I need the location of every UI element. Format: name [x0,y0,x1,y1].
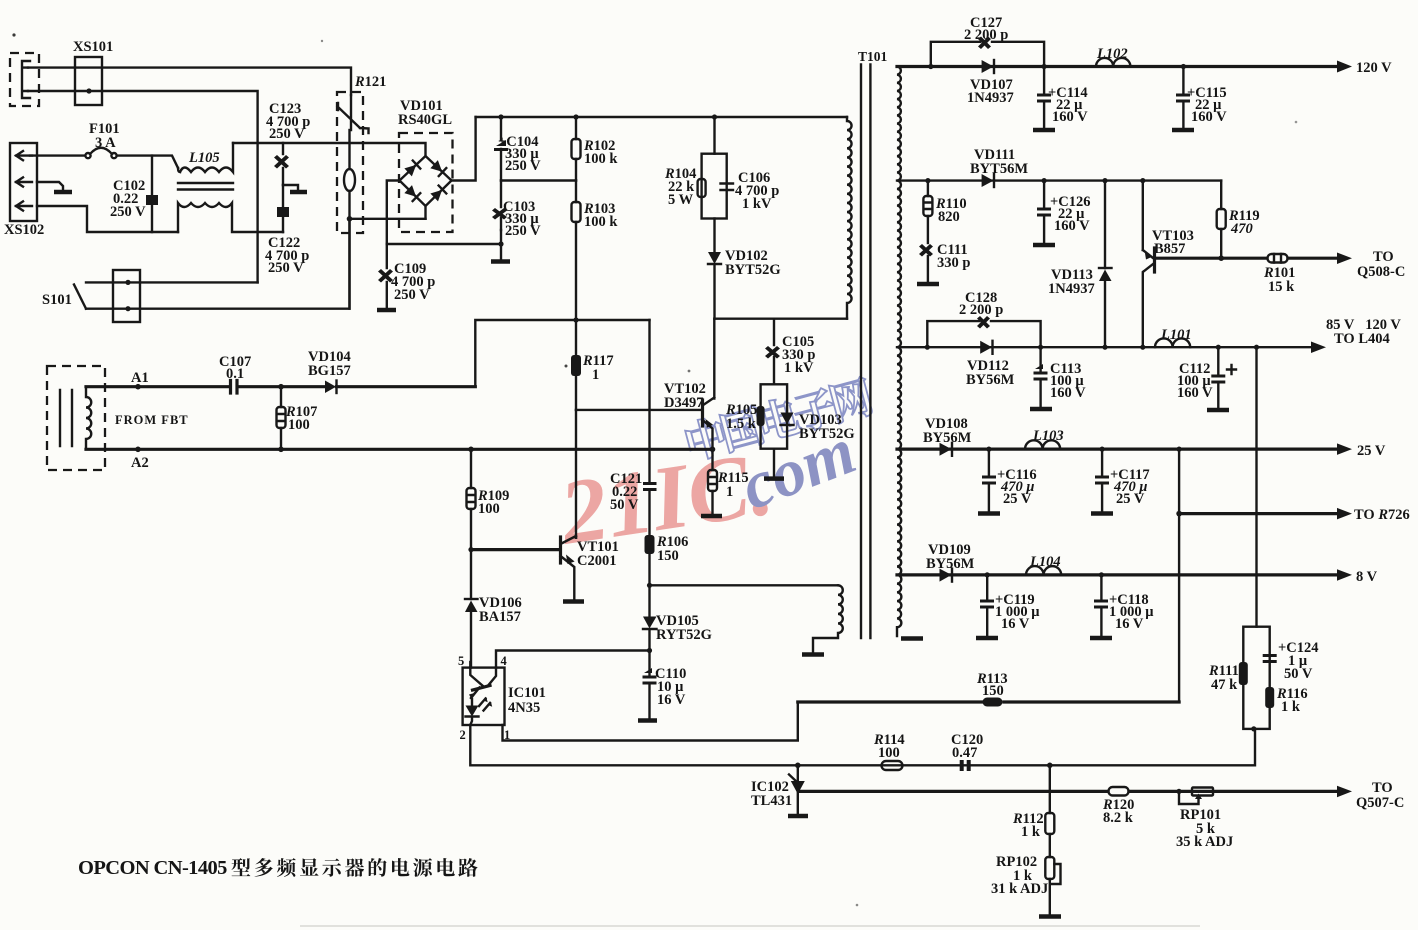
svg-text:100: 100 [478,501,500,517]
connector XS102 box [10,143,37,221]
svg-text:1: 1 [726,484,733,500]
svg-text:25 V: 25 V [1357,443,1386,459]
capacitor C112 [1216,345,1221,350]
svg-text:820: 820 [938,209,960,225]
small speck [565,365,568,368]
watermark chinese characters [683,375,874,463]
WATERMARK [552,375,875,564]
diode VD106 [470,550,472,599]
svg-text:C2001: C2001 [577,553,616,569]
svg-text:RS40GL: RS40GL [398,112,452,128]
svg-text:250 V: 250 V [110,204,146,220]
capacitor C102 [151,156,153,232]
svg-text:160 V: 160 V [1050,385,1086,401]
ground bar (C103) [491,259,510,264]
ground bar (C111) [917,282,939,287]
wire: degauss return bus [350,218,426,220]
wire: pin4 riser [496,651,650,668]
ground bar (C119) [976,636,998,641]
svg-text:150: 150 [657,548,679,564]
node R103 bottom [573,317,578,322]
svg-text:2 200 p: 2 200 p [959,302,1003,318]
diode VD113 [1102,178,1107,183]
transformer T101 core [861,65,870,639]
wire: bridge minus lead down to C109 [387,181,400,269]
SECTION: AC INPUT [4,39,426,322]
ground bar (VT101) [563,599,584,604]
potentiometer RP102 [1045,857,1054,879]
inductor L101 [1155,338,1190,347]
svg-text:TO: TO [1372,780,1393,796]
ground bar (C118) [1090,636,1112,641]
svg-text:50 V: 50 V [610,497,639,513]
svg-text:0.1: 0.1 [226,366,244,382]
wire: +310V top rail [476,116,847,118]
wire: bridge + output to top rail [452,117,476,181]
resistor R113 body [983,698,1003,707]
wire: VD104 node up-over to C121 branch [475,320,649,387]
FBT core lines [60,390,72,446]
resistor R119 [1220,181,1222,209]
ground bar (T101 secondary common) [901,636,923,641]
diode VD112 [980,341,992,354]
wire: AC rail to bridge [233,143,426,156]
SECTION: SECONDARY OUTPUTS [798,15,1410,732]
inductor L102 [1096,58,1130,67]
wire: A1 line [86,385,475,388]
faint page artifact line [300,925,1200,927]
FBT coil dashed box [47,366,105,470]
ground bar (C117) [1091,511,1113,516]
svg-text:1.5 k: 1.5 k [726,416,757,432]
node VT102 emitter [710,447,716,453]
capacitor C114 [1043,67,1045,130]
wire: 85V rail [897,346,1311,348]
svg-text:120 V: 120 V [1356,60,1392,76]
SECTION: SWITCHER MIDDLE [86,317,855,667]
svg-text:L105: L105 [188,150,220,166]
transformer T101 primary winding [847,117,852,319]
svg-text:TL431: TL431 [751,793,792,809]
SECTION: TRANSFORMER [802,49,923,655]
resistor R101 body [1268,254,1288,263]
capacitor C123 [282,143,284,185]
ground bar (C114) [1033,128,1055,133]
wire: primary bottom to transformer [715,318,848,320]
ground bar (C126) [1033,243,1055,248]
resistor R110 [925,178,930,183]
wire: 120V rail [897,65,1337,68]
IC101 LED [466,706,479,717]
capacitor C119 [985,572,990,577]
transistor VT101 [559,537,562,563]
shunt regulator IC102 TL431 [797,765,799,815]
svg-text:BG157: BG157 [308,363,351,379]
svg-text:T101: T101 [858,49,888,64]
svg-text:BY56M: BY56M [926,556,975,572]
S101 contact nodes [125,280,130,285]
svg-text:TO R726: TO R726 [1354,507,1410,523]
svg-text:1N4937: 1N4937 [967,90,1014,106]
capacitor C122 [282,185,284,232]
svg-text:160 V: 160 V [1052,109,1088,125]
sense divider R111/C124/R116 box [1243,627,1269,729]
ground bar (C109) [377,308,396,313]
capacitor C115 [1181,64,1186,69]
thermistor R121 lower element (oval) [348,130,350,169]
svg-text:100: 100 [288,417,310,433]
resistor R104 body [698,179,706,197]
wire: line through fuse to L105 [30,156,178,168]
svg-text:15 k: 15 k [1268,279,1295,295]
svg-text:BYT52G: BYT52G [799,426,855,442]
node VT101 base [468,547,473,552]
svg-text:OPCON CN-1405: OPCON CN-1405 [78,857,227,879]
node VD113 bottom [1102,345,1107,350]
IC101 phototransistor [470,668,483,686]
SECTION: REGULATION BOTTOM [751,732,1404,917]
svg-text:50 V: 50 V [1284,666,1313,682]
diode VD103 [781,413,794,425]
resistor R112 [1049,765,1051,813]
svg-text:250 V: 250 V [394,287,430,303]
svg-text:S101: S101 [42,292,72,308]
inductor L103 [1025,440,1060,449]
node VT103 collector [1140,345,1145,350]
capacitor C116 [986,447,991,452]
wire: TO R726 line [1176,511,1182,517]
capacitor C121 [648,320,650,535]
wire: 25V sense riser down [1177,447,1182,452]
svg-text:100 k: 100 k [584,214,618,230]
svg-text:0.47: 0.47 [952,745,977,761]
svg-text:5 W: 5 W [668,192,694,208]
bridge diode 1 [404,161,420,177]
diode VD107 [982,60,994,73]
transformer T101 aux winding [813,585,843,653]
svg-text:BYT52G: BYT52G [725,262,781,278]
svg-text:B857: B857 [1154,241,1185,257]
ground tap between C123/C122 [283,185,298,191]
switch S101 lever [74,285,86,309]
svg-text:A2: A2 [131,455,149,471]
svg-text:BY56M: BY56M [966,372,1015,388]
clamp R105/VD103 box [761,384,788,448]
capacitor C110 [643,668,657,685]
XS102 prong arrows [16,151,32,211]
svg-text:4: 4 [501,654,508,668]
svg-text:100 k: 100 k [584,151,618,167]
ground bar (IC102) [788,814,808,819]
svg-text:16 V: 16 V [657,692,686,708]
resistor R117 [575,320,577,355]
inductor L104 [1026,566,1061,575]
svg-text:8 V: 8 V [1356,569,1378,585]
capacitor C103 [500,181,502,231]
svg-text:4N35: 4N35 [508,700,540,716]
diode VD111 [982,174,994,187]
svg-text:150: 150 [982,683,1004,699]
svg-text:160 V: 160 V [1191,109,1227,125]
rectifier VD101 bridge diamond [400,156,452,206]
svg-text:BA157: BA157 [479,609,521,625]
wire: primary return rail [86,448,713,451]
svg-text:330 p: 330 p [937,255,970,271]
svg-text:160 V: 160 V [1054,218,1090,234]
capacitor C126 [1042,178,1047,183]
svg-text:1 kV: 1 kV [742,196,772,212]
svg-text:8.2 k: 8.2 k [1103,810,1134,826]
svg-text:D3497: D3497 [664,395,703,411]
wire: S101 top contact to XS101 line2 [86,281,258,283]
svg-text:1 k: 1 k [1021,824,1041,840]
wire: C103 bottom return [500,230,502,260]
ground bar (RP102) [1039,914,1061,919]
svg-text:BY56M: BY56M [923,430,972,446]
svg-text:BYT56M: BYT56M [970,161,1028,177]
wire: AC line top from plug to R121 [28,68,351,95]
svg-text:IC101: IC101 [508,685,546,701]
bridge diode 2 [430,160,446,176]
svg-text:31 k ADJ: 31 k ADJ [991,881,1048,897]
resistor R116 body [1265,687,1274,708]
TITLE [78,857,1200,926]
resistor R115 [711,449,713,470]
ground bar (C116) [978,511,1000,516]
wire: TO Q507-C line [799,790,1337,793]
capacitor C128 loop [927,321,1040,347]
wire: feedback line with R113 [798,700,1179,703]
svg-text:250 V: 250 V [505,158,541,174]
ground bar (C115) [1172,128,1194,133]
diode VD104 [325,381,336,394]
degauss plug prongs [22,61,30,98]
wire: bridge AC2 lead down [424,206,426,219]
svg-text:16 V: 16 V [1001,616,1030,632]
svg-text:XS102: XS102 [4,222,44,238]
ground bar (XS102) [54,190,72,195]
wire: pin 2 drop and run to TL431 [470,725,1255,765]
svg-text:1 kV: 1 kV [784,360,814,376]
svg-text:25 V: 25 V [1116,491,1145,507]
bridge diode 3 [404,185,420,201]
node VD105/C110/pin4 [647,648,652,653]
svg-text:1: 1 [592,367,599,383]
wire: to VT101 base [471,548,560,551]
node TL431 cathode [795,763,801,769]
svg-text:FROM FBT: FROM FBT [115,413,189,427]
fuse F101 symbol [85,153,90,158]
optocoupler IC101 box [463,668,505,725]
ground bar (C110) [638,718,657,723]
svg-text:2: 2 [460,728,466,742]
clamp box ground [773,449,775,478]
ground bar (C112) [1207,408,1229,413]
degauss plug dashed box [10,53,39,106]
capacitor C118 [1099,572,1104,577]
potentiometer RP101 [1192,788,1213,796]
svg-text:Q508-C: Q508-C [1357,264,1405,280]
thermistor R121 dashed box [337,92,363,233]
transistor VT102 [701,400,704,426]
wire: C104/C103 midpoint to R102/R103 midpoint [501,179,576,181]
inductor L105 core [178,183,233,190]
node on XS101 bottom wire [86,88,91,93]
resistor R103 [575,181,577,321]
node R112 top [1047,763,1053,769]
capacitor C124 [1263,654,1277,663]
transformer T101 secondary winding [897,67,901,637]
capacitor C105 [773,319,775,385]
wire: sense riser from 85V rail down to R111 network [1254,345,1259,350]
svg-text:R121: R121 [354,74,386,90]
SECTION: FBT LEFT [47,349,475,471]
wire: VT103 emitter to Q508-C [1156,257,1338,260]
resistor R120 body [1109,787,1129,796]
wire: pin 5 stub [469,662,471,668]
bridge diode 4 [430,186,446,202]
wire: primary ground bus [387,243,501,245]
capacitor C107 [231,381,238,394]
wire: VD111 rail [897,179,1221,181]
wire: VT102 base drive bus [576,409,701,411]
scan speck [12,33,15,36]
rectifier VD101 dashed box [399,133,453,232]
svg-text:TO L404: TO L404 [1334,331,1390,347]
wire: pin 1 drop and run to R113 riser [503,702,798,741]
svg-text:250 V: 250 V [268,260,304,276]
diode VD102 [713,219,715,252]
SECTION: OPTO / FEEDBACK BOTTOM [458,583,1255,766]
wire: VT101 collector riser [575,410,577,538]
XS102 middle prong ground [37,182,63,192]
wire: AC line 2 from plug down to S101 [28,91,258,282]
svg-text:250 V: 250 V [269,126,305,142]
svg-text:5: 5 [458,654,464,668]
svg-text:A1: A1 [131,370,149,386]
capacitor C104 [500,117,502,181]
wire: S101 bottom to R121 [86,219,350,309]
capacitor C109 [378,269,393,283]
switch S101 box [113,270,140,322]
diode VD108 [940,443,952,456]
IC101 light arrows [479,699,490,711]
resistor R114 body [882,761,903,770]
svg-text:100: 100 [878,745,900,761]
inductor L105 top winding [178,143,233,172]
node at C103 return [498,241,503,246]
diode VD109 [940,569,952,582]
resistor R107 [278,384,284,390]
resistor R102 [575,117,577,181]
thermistor R121 element [338,95,369,133]
FBT winding [86,387,91,450]
transistor VT103 [1140,178,1145,183]
ground bar (aux winding) [802,652,824,657]
svg-text:XS101: XS101 [73,39,113,55]
node R109 top [468,447,474,453]
svg-text:160 V: 160 V [1177,385,1213,401]
ground bar (C113) [1030,407,1052,412]
wire: divider bottom to feedback [1251,726,1256,731]
svg-text:TO: TO [1373,249,1394,265]
wire: aux winding top to VD105 [650,584,839,586]
diode VD105 [648,585,650,616]
wire: 8V rail [897,573,1337,576]
capacitor C117 [1100,447,1105,452]
svg-text:16 V: 16 V [1115,616,1144,632]
svg-text:1 k: 1 k [1281,699,1301,715]
ground bar (R115) [701,514,722,519]
capacitor C113 [1039,347,1041,408]
inductor L105 bottom winding [178,203,283,232]
capacitor C120 [960,760,971,771]
svg-text:1N4937: 1N4937 [1048,281,1095,297]
wire: XS102 prong3 to loop bottom [37,206,178,232]
resistor R105 body [757,406,765,426]
resistor R106 [645,535,655,554]
capacitor C106 plates [721,184,734,191]
resistor R109 [470,449,472,488]
connector XS101 box [75,57,102,105]
capacitor C127 loop [931,42,1044,67]
svg-text:Q507-C: Q507-C [1356,795,1404,811]
svg-text:RYT52G: RYT52G [656,627,712,643]
snubber R104/C106 box [713,117,715,154]
svg-text:250 V: 250 V [505,223,541,239]
svg-text:470: 470 [1230,221,1253,237]
capacitor C111 [919,244,933,257]
svg-text:35 k ADJ: 35 k ADJ [1176,834,1233,850]
svg-text:47 k: 47 k [1211,677,1238,693]
svg-text:25 V: 25 V [1003,491,1032,507]
SECTION: BRIDGE + PRIMARY TOP [347,98,847,320]
resistor R111 body [1239,662,1248,685]
wire: 25V rail [897,448,1337,451]
